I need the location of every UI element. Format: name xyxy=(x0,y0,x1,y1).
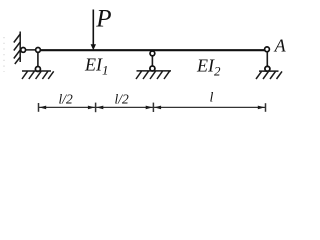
node right beam pin A xyxy=(265,47,270,52)
dimension arrowheads xyxy=(39,106,265,110)
wire link middle pin down xyxy=(151,53,153,66)
wire link wall pin to beam pin xyxy=(20,49,38,51)
node middle upper pin xyxy=(150,51,155,56)
dimension line xyxy=(39,103,266,113)
node left lower pin xyxy=(35,67,40,72)
svg-text:l/2: l/2 xyxy=(115,91,130,106)
svg-text:A: A xyxy=(274,36,287,56)
wire link right pin down xyxy=(266,50,268,66)
node middle lower pin xyxy=(150,66,155,71)
svg-text:EI1: EI1 xyxy=(84,55,109,78)
node pin at wall xyxy=(21,48,26,53)
node left beam pin xyxy=(36,48,41,53)
svg-text:EI2: EI2 xyxy=(196,56,221,79)
node right lower pin xyxy=(265,66,270,71)
ground left xyxy=(22,71,54,79)
beam EI1+EI2 xyxy=(38,49,265,51)
ground middle xyxy=(136,71,171,79)
svg-text:P: P xyxy=(95,6,111,33)
svg-text:l: l xyxy=(210,91,214,106)
wire link left pin down to lower pin xyxy=(37,50,39,66)
force P arrow xyxy=(92,10,94,46)
ground right xyxy=(256,71,282,79)
wall xyxy=(14,32,20,65)
svg-text:l/2: l/2 xyxy=(59,91,74,106)
scan artifact dotted edge xyxy=(3,37,5,72)
